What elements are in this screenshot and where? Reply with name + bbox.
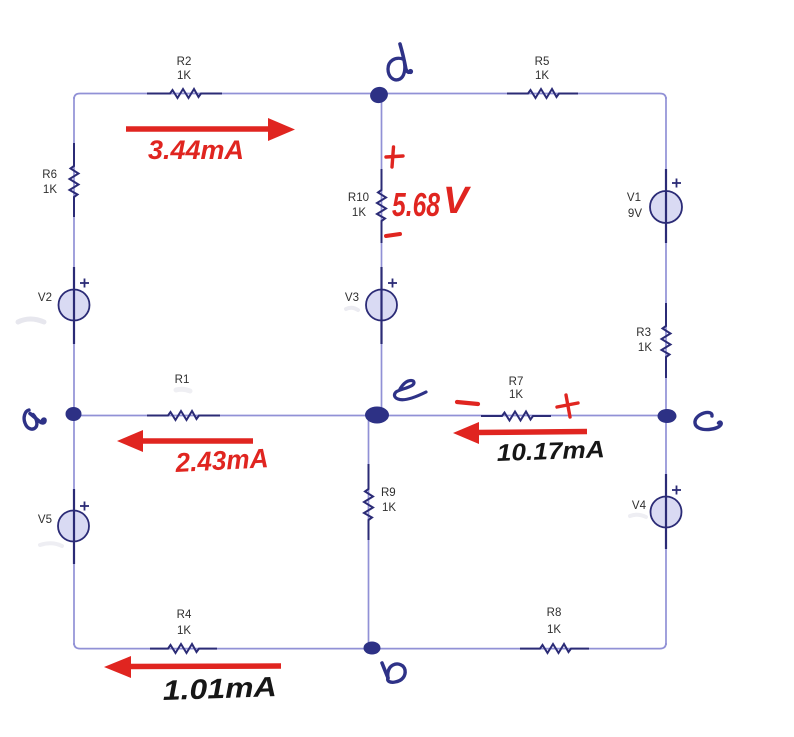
svg-text:1K: 1K — [43, 184, 57, 196]
red minus below R10 — [386, 234, 400, 236]
red current arrow 1.01mA (pointing left) — [104, 656, 281, 678]
red current arrow 2.43mA (pointing left) — [117, 430, 253, 452]
red plus above R10 — [386, 147, 403, 167]
svg-text:R8: R8 — [547, 607, 562, 619]
svg-text:R7: R7 — [509, 376, 524, 388]
svg-text:V4: V4 — [632, 500, 647, 512]
faint whiteout smudge near V3 — [346, 308, 358, 310]
red current arrow 3.44mA (pointing right) — [126, 118, 295, 141]
red minus left of R7 — [457, 402, 478, 404]
svg-text:V5: V5 — [38, 514, 52, 526]
svg-text:R4: R4 — [177, 609, 192, 621]
faint whiteout smudge near V5 — [40, 543, 62, 546]
voltage source V5 — [58, 489, 89, 564]
wire top horizontal — [74, 94, 666, 100]
svg-text:1K: 1K — [177, 625, 191, 637]
svg-text:1K: 1K — [547, 624, 561, 636]
voltage source V1 — [650, 169, 682, 243]
svg-text:V: V — [443, 180, 471, 222]
wire middle vertical lower e-b — [368, 416, 370, 648]
svg-text:1K: 1K — [352, 207, 366, 219]
node label d handwritten — [388, 44, 413, 80]
resistor R2 — [147, 89, 222, 98]
node e junction dot — [365, 407, 389, 424]
svg-text:5.68: 5.68 — [392, 186, 440, 223]
wire right vertical — [665, 97, 667, 645]
svg-text:1K: 1K — [177, 70, 191, 82]
faint whiteout smudge near V4 — [630, 515, 646, 517]
svg-text:3.44mA: 3.44mA — [148, 135, 244, 165]
svg-text:R1: R1 — [175, 374, 190, 386]
wire middle vertical upper d-e — [381, 95, 383, 410]
svg-text:R2: R2 — [177, 56, 192, 68]
red current arrow 10.17mA (pointing left) — [453, 422, 587, 444]
node d junction dot — [368, 85, 390, 106]
wire left vertical — [73, 97, 75, 645]
node label e handwritten — [394, 381, 426, 400]
resistor R9 — [364, 464, 373, 540]
svg-text:R6: R6 — [42, 169, 57, 181]
svg-text:R9: R9 — [381, 487, 396, 499]
node label a handwritten — [24, 410, 45, 429]
wire middle horizontal a-e-c — [74, 415, 666, 417]
voltage source V3 — [366, 267, 397, 344]
svg-text:R10: R10 — [348, 192, 369, 204]
resistor R3 — [662, 303, 671, 378]
resistor R8 — [520, 644, 589, 653]
red plus right of R7 — [557, 395, 578, 417]
svg-text:R3: R3 — [636, 327, 651, 339]
resistor R7 — [481, 412, 551, 421]
svg-text:1K: 1K — [382, 502, 396, 514]
node label c handwritten — [695, 412, 721, 429]
svg-text:1.01mA: 1.01mA — [162, 671, 277, 706]
svg-text:V3: V3 — [345, 292, 359, 304]
svg-text:1K: 1K — [509, 389, 523, 401]
voltage source V4 — [651, 474, 682, 549]
voltage source V2 — [59, 267, 90, 344]
svg-text:R5: R5 — [535, 56, 550, 68]
faint whiteout smudge near V2 — [18, 319, 44, 322]
svg-text:V1: V1 — [627, 192, 641, 204]
node a junction dot — [66, 407, 82, 421]
svg-text:1K: 1K — [535, 70, 549, 82]
svg-text:9V: 9V — [628, 208, 642, 220]
svg-text:V2: V2 — [38, 292, 52, 304]
resistor R10 — [377, 169, 386, 243]
node b junction dot — [364, 642, 381, 655]
resistor R5 — [507, 89, 578, 98]
svg-text:1K: 1K — [638, 342, 652, 354]
resistor R6 — [70, 143, 79, 217]
node label b handwritten — [382, 663, 405, 682]
svg-text:10.17mA: 10.17mA — [496, 436, 605, 467]
faint whiteout smudge under R1 label — [176, 389, 190, 391]
resistor R1 — [147, 411, 220, 420]
svg-text:2.43mA: 2.43mA — [174, 443, 269, 478]
wire bottom horizontal — [74, 643, 666, 649]
resistor R4 — [150, 644, 217, 653]
node c junction dot — [658, 409, 677, 423]
